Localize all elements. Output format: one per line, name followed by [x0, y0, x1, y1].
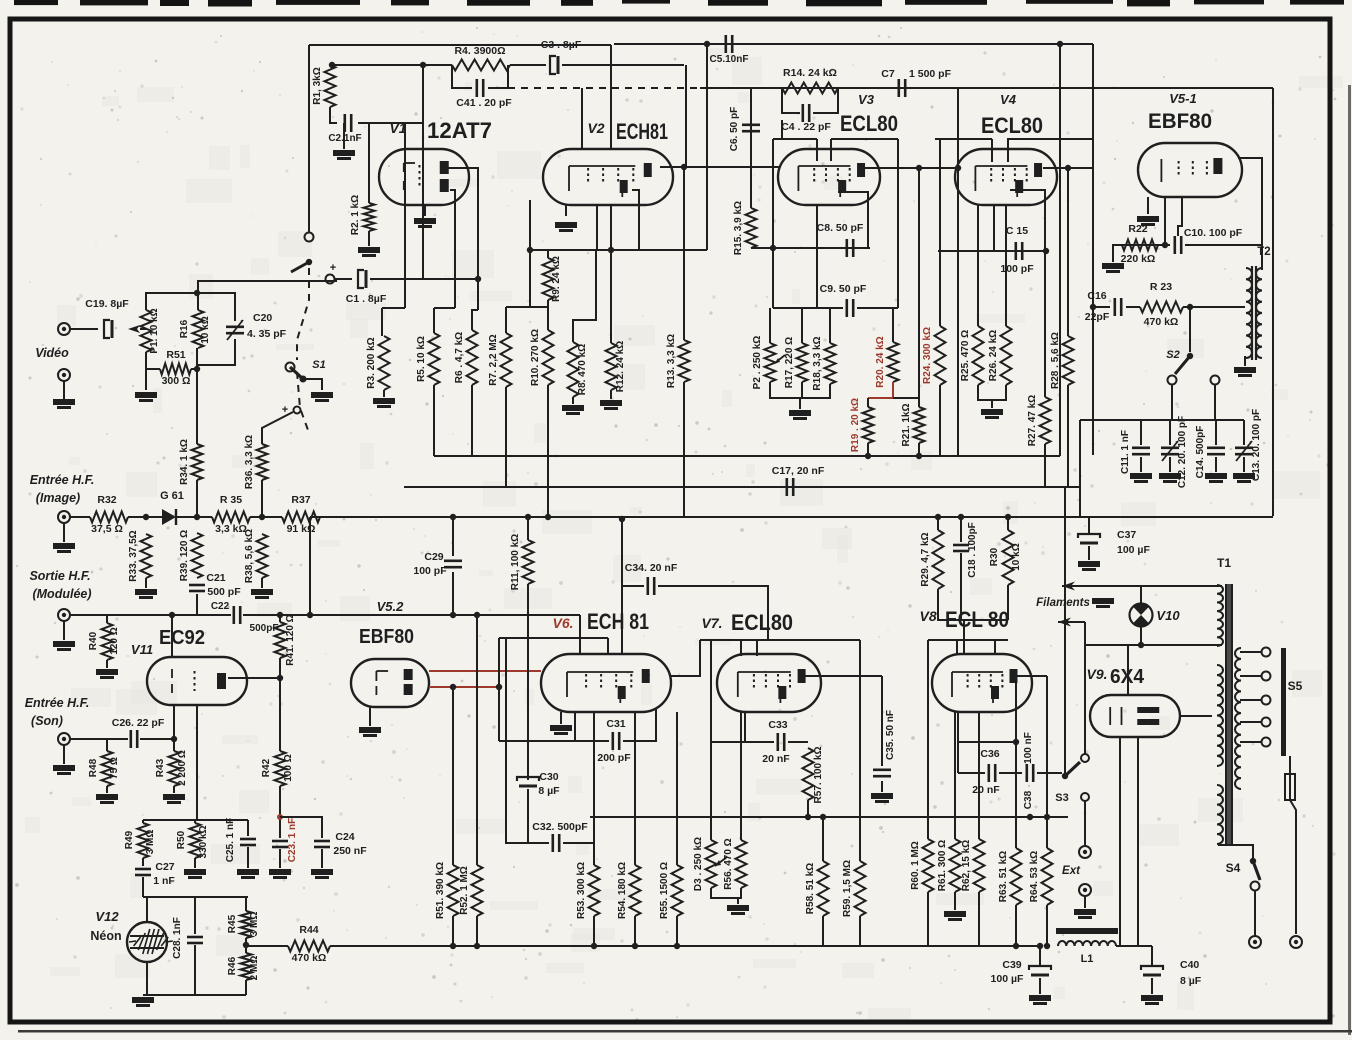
junction bus x622	[619, 516, 625, 522]
T1 tap circle 2	[1262, 696, 1271, 705]
label R51 value	[162, 375, 191, 387]
wire C28 down	[194, 945, 196, 995]
svg-text:R39. 120 Ω: R39. 120 Ω	[179, 530, 190, 581]
wire v12 top lead	[146, 897, 148, 922]
junction R64 rail	[1044, 814, 1050, 820]
wire R42 lead	[279, 683, 281, 751]
svg-text:R56. 470 Ω: R56. 470 Ω	[723, 838, 734, 889]
switch S2 contact b	[1211, 376, 1220, 385]
wire x1065 long drop	[1064, 487, 1066, 776]
wire rail A drop	[610, 45, 612, 149]
label Neon	[90, 929, 121, 943]
label C27	[155, 861, 174, 873]
label R40 value	[109, 627, 120, 654]
transformer T1 core	[1226, 584, 1232, 846]
wire R5 riser	[433, 308, 435, 333]
junction EC92 grid	[169, 612, 175, 618]
wire R27 top	[1044, 251, 1046, 397]
label V1	[389, 120, 406, 136]
svg-text:R37: R37	[291, 494, 310, 506]
wire drop x1060	[1059, 44, 1061, 456]
ground V1 cathode	[414, 218, 436, 228]
ground R8	[562, 405, 584, 415]
svg-text:C33: C33	[768, 719, 787, 731]
capacitor C25	[240, 839, 256, 845]
label R48	[88, 758, 99, 777]
T1 tap circle 4	[1262, 738, 1271, 747]
wire S1 lever	[291, 262, 309, 272]
label R44 value	[292, 952, 327, 964]
wire R50 gnd lead	[194, 858, 196, 868]
wire V2 cathode	[565, 205, 567, 216]
svg-text:R64. 53 kΩ: R64. 53 kΩ	[1029, 851, 1040, 902]
wire C26 right	[140, 738, 174, 740]
junction R53 bus	[591, 943, 597, 949]
svg-text:+: +	[330, 262, 336, 274]
wire R29C18R30 rail	[938, 619, 1008, 621]
svg-text:C29: C29	[424, 551, 443, 563]
svg-text:91 kΩ: 91 kΩ	[287, 523, 316, 535]
ground S1	[311, 392, 333, 402]
svg-text:8 µF: 8 µF	[538, 785, 560, 797]
wire top feed from P1 block	[198, 281, 337, 293]
wire V9 top in	[1127, 645, 1129, 695]
label R49 value	[145, 830, 156, 855]
wire C41 loop right	[488, 65, 508, 88]
wire V7 pin stub b	[756, 640, 758, 656]
label C2	[328, 133, 361, 144]
resistor R60c	[910, 839, 934, 892]
svg-text:R59. 1,5 MΩ: R59. 1,5 MΩ	[842, 860, 853, 917]
wire V7 anode out	[805, 675, 882, 677]
wire V11 anode out2	[228, 677, 280, 679]
svg-text:R4. 3900Ω: R4. 3900Ω	[454, 45, 505, 57]
wire V8 pin stub a	[956, 640, 958, 654]
wire R33 gnd lead	[145, 578, 147, 588]
svg-text:R51. 390 kΩ: R51. 390 kΩ	[435, 862, 446, 919]
label C23	[287, 818, 298, 862]
wire R2 gnd lead	[368, 231, 370, 246]
wire P2 riser	[769, 308, 771, 343]
terminal Ext b	[1079, 884, 1091, 896]
wire C37 lead	[1088, 516, 1090, 534]
wire y820 rail	[143, 819, 248, 821]
wire C1 left	[335, 278, 352, 280]
svg-text:C37: C37	[1117, 529, 1136, 541]
junction C18 bus	[958, 514, 964, 520]
svg-text:T1: T1	[1217, 556, 1231, 570]
switch S2 lever	[1175, 356, 1190, 374]
wire R45 lead	[245, 897, 247, 911]
label R23	[1150, 281, 1172, 293]
wire S3 from filament	[1084, 645, 1086, 754]
label R30	[989, 547, 1000, 566]
tube V5-2 EBF80	[351, 659, 429, 707]
svg-text:C6. 50 pF: C6. 50 pF	[729, 107, 740, 151]
svg-text:R57. 100 kΩ: R57. 100 kΩ	[813, 747, 824, 804]
wire C32 right	[563, 843, 594, 865]
capacitor C15	[1016, 242, 1022, 260]
wire V1 anode2 out	[450, 190, 455, 308]
label ECL80 V8	[945, 607, 1009, 632]
wire P2R17R18 rail	[770, 382, 830, 398]
svg-text:V7.: V7.	[701, 615, 722, 631]
ground V5-2	[359, 727, 381, 737]
junction C39	[1037, 943, 1043, 949]
svg-text:R27. 47 kΩ: R27. 47 kΩ	[1027, 395, 1038, 446]
wire R40 drop	[106, 615, 108, 623]
fuse	[1285, 774, 1295, 800]
wire V3 lower anode	[838, 192, 868, 248]
wire sortie gnd	[63, 621, 65, 640]
wire video to C19	[70, 328, 98, 330]
arrow filament a	[1062, 582, 1098, 591]
wire T2 left bottom	[1244, 356, 1246, 366]
wire trimmer gnd lead 2	[1215, 457, 1217, 472]
svg-text:R33. 37,5Ω: R33. 37,5Ω	[128, 530, 139, 581]
wire V4 lid A	[935, 138, 992, 140]
resistor R63	[998, 848, 1022, 905]
capacitor C4	[803, 104, 809, 122]
resistor R10	[530, 329, 554, 386]
capacitor C7	[899, 79, 905, 97]
label C20 value	[247, 328, 287, 340]
label C37	[1117, 529, 1136, 541]
svg-text:100 pF: 100 pF	[413, 565, 447, 577]
resistor R40	[102, 623, 113, 660]
svg-text:470 kΩ: 470 kΩ	[292, 952, 327, 964]
svg-text:C7: C7	[881, 68, 895, 80]
wire filament line to T1	[1098, 585, 1222, 587]
svg-text:75 Ω: 75 Ω	[109, 757, 120, 779]
capacitor C12	[1161, 441, 1179, 461]
label C31 value	[597, 752, 631, 764]
wire V10 top	[1140, 586, 1142, 604]
wire trimmer rail ext	[1080, 419, 1141, 421]
svg-text:12AT7: 12AT7	[427, 118, 492, 143]
wire R20 to R19 red	[868, 382, 893, 398]
svg-text:220 kΩ: 220 kΩ	[1121, 253, 1156, 265]
terminal bottom right a	[1249, 936, 1261, 948]
wire R36 top lead	[262, 412, 293, 444]
label C4	[781, 121, 831, 133]
switch S3 pivot	[1062, 773, 1068, 779]
label C1	[346, 293, 387, 305]
junction R57 rail	[805, 814, 811, 820]
label R2	[350, 195, 361, 235]
label C30	[539, 771, 558, 783]
wire V6 pin down c31	[574, 712, 576, 741]
wire V6 gnd lead	[560, 712, 562, 724]
junction bus R55	[674, 943, 680, 949]
resistor R8	[568, 342, 589, 397]
svg-text:V12: V12	[95, 909, 119, 924]
scan edge right	[1348, 85, 1351, 1035]
svg-text:R12. 24 kΩ: R12. 24 kΩ	[615, 341, 626, 392]
switch S1 dashed	[297, 268, 309, 430]
wire R11 down	[527, 584, 529, 780]
label C16	[1087, 290, 1106, 302]
label C21 value	[207, 586, 241, 598]
wire R58 top	[822, 817, 824, 861]
svg-text:Filaments: Filaments	[1036, 597, 1090, 609]
wire R52 bot	[476, 916, 478, 946]
junction bus R10	[545, 514, 551, 520]
svg-text:C35. 50 nF: C35. 50 nF	[885, 710, 896, 760]
label S1 plus	[282, 404, 288, 416]
junction R51 col	[194, 366, 200, 372]
svg-text:L1: L1	[1081, 953, 1094, 965]
wire filament line 2	[1085, 644, 1222, 646]
wire R59 bot	[859, 916, 861, 946]
wire C4 loop r	[813, 88, 838, 113]
wire C36 to C38	[999, 772, 1022, 774]
wire R23 to T2	[1183, 306, 1245, 308]
svg-text:V10: V10	[1156, 608, 1180, 623]
wire C31 line	[499, 740, 609, 742]
wire R43 drop	[173, 739, 175, 751]
svg-text:R 35: R 35	[220, 494, 242, 506]
wire son line	[70, 738, 128, 740]
svg-text:C18 . 100pF: C18 . 100pF	[967, 522, 978, 578]
svg-text:C20: C20	[253, 312, 272, 324]
svg-text:R18, 3,3 kΩ: R18, 3,3 kΩ	[812, 336, 823, 390]
label V5.2	[377, 599, 405, 614]
label ECL80 V7	[731, 610, 793, 635]
wire R6 down	[471, 385, 473, 456]
svg-text:200 pF: 200 pF	[597, 752, 631, 764]
potentiometer D3	[693, 837, 717, 891]
wire anode drop R63	[1015, 676, 1017, 848]
terminal entree image	[58, 511, 70, 523]
resistor R41	[275, 622, 286, 658]
wire V4 pin mid	[993, 205, 995, 251]
wire R46 down	[245, 980, 247, 995]
label C10	[1184, 227, 1243, 239]
wire rail y308	[773, 307, 843, 309]
switch S3 contact bot	[1081, 793, 1089, 801]
wire V2 pins down1	[596, 205, 598, 250]
svg-text:10 kΩ: 10 kΩ	[200, 316, 211, 343]
svg-text:C31: C31	[606, 718, 625, 730]
wire C24 gnd	[321, 849, 323, 868]
label C33 value	[762, 753, 790, 765]
tube V3 ECL80	[778, 149, 880, 205]
wire C32 left	[506, 638, 549, 843]
wire V3 anode out	[865, 167, 958, 169]
wire V8 anode out	[1016, 675, 1047, 677]
terminal video in	[58, 323, 70, 335]
label R48 value	[109, 757, 120, 779]
P2 arrow	[775, 355, 785, 363]
label R23 value	[1144, 316, 1179, 328]
tube V2 ECH81	[543, 149, 673, 205]
label C31	[606, 718, 625, 730]
wire P1 bottom rail	[146, 352, 160, 369]
label C12	[1177, 416, 1188, 488]
capacitor C11	[1132, 448, 1150, 454]
label C19	[85, 298, 129, 310]
wire V6 anode right	[671, 640, 700, 676]
svg-text:V5-1: V5-1	[1169, 91, 1196, 106]
wire entree gnd drop	[63, 523, 65, 542]
label R35 value	[215, 523, 247, 535]
wire R45 R46 join	[245, 938, 247, 953]
svg-text:S4: S4	[1226, 861, 1241, 875]
ground trimmer 1	[1159, 473, 1181, 483]
wire C30 bottom lead	[527, 789, 529, 843]
ground R2	[358, 247, 380, 257]
junction bus C29	[450, 514, 456, 520]
label S2	[1166, 349, 1179, 361]
wire trimmer gnd lead 1	[1169, 457, 1171, 472]
wire C33 right	[788, 741, 808, 743]
label R30 value	[1011, 543, 1022, 570]
resistor R51	[160, 364, 191, 375]
terminal bottom right b	[1290, 936, 1302, 948]
svg-text:R30: R30	[989, 547, 1000, 566]
wire R10 top	[547, 307, 549, 330]
wire P1 top rail	[146, 293, 235, 321]
capacitor C17	[787, 478, 793, 496]
wire entree to R32	[70, 516, 90, 518]
junction V3 anode x958	[955, 165, 961, 171]
svg-text:1 nF: 1 nF	[153, 875, 175, 887]
wire junction drop to C2 line	[422, 65, 424, 279]
wire trimmer rail drop d	[1243, 420, 1245, 445]
wire R17 riser	[801, 308, 803, 343]
wire R9 lead	[547, 250, 549, 258]
resistor R44	[288, 941, 330, 952]
svg-text:R54. 180 kΩ: R54. 180 kΩ	[617, 862, 628, 919]
resistor R17	[784, 337, 808, 388]
svg-text:C21: C21	[206, 572, 225, 584]
label Filaments	[1036, 597, 1090, 609]
ground V12	[132, 997, 154, 1007]
wire T1 tap 2	[1240, 699, 1262, 701]
capacitor C19	[104, 320, 112, 338]
wire R51 to R16 bottom	[191, 348, 197, 369]
svg-text:C23. 1 nF: C23. 1 nF	[287, 818, 298, 862]
wire R25 top lead	[977, 205, 979, 326]
wire R58 bot	[822, 916, 824, 946]
svg-text:C38: C38	[1023, 790, 1034, 809]
wire R51b bot	[452, 916, 454, 946]
wire V3 lid A	[773, 138, 817, 140]
wire C22 right	[243, 614, 580, 616]
label C21	[206, 572, 225, 584]
wire C6 branch	[750, 88, 752, 208]
wire drop x707	[706, 44, 708, 250]
wire C23 gnd	[279, 849, 281, 868]
wire S2 drop	[1189, 307, 1191, 352]
svg-text:500 pF: 500 pF	[207, 586, 241, 598]
junction sortie riser	[307, 612, 313, 618]
label C39	[1002, 959, 1021, 971]
svg-text:(Modulée): (Modulée)	[32, 587, 91, 601]
label Image	[36, 491, 80, 505]
svg-text:R50: R50	[176, 830, 187, 849]
wire V2 anode line	[660, 166, 779, 168]
wire anode drop R64	[1046, 676, 1048, 848]
svg-text:R25. 470 Ω: R25. 470 Ω	[960, 330, 971, 381]
wire y995 rail	[143, 994, 246, 996]
wire R27 bot	[1044, 444, 1046, 487]
label C14	[1195, 426, 1206, 479]
label C24	[335, 831, 354, 843]
svg-text:R3. 200 kΩ: R3. 200 kΩ	[366, 337, 377, 388]
svg-text:R2. 1 kΩ: R2. 1 kΩ	[350, 195, 361, 235]
wire C37 gnd lead	[1088, 546, 1090, 560]
wire V11 cathode down	[173, 705, 175, 739]
label R37 value	[287, 523, 316, 535]
label R14	[783, 67, 837, 79]
ground V5-1	[1137, 216, 1159, 226]
wire x530 drop	[529, 250, 531, 307]
label C25	[225, 818, 236, 862]
label R44	[299, 924, 318, 936]
tube V1 12AT7	[379, 149, 469, 205]
ground P1	[135, 392, 157, 402]
svg-text:R22: R22	[1128, 223, 1147, 235]
wire V8 grid rail	[928, 639, 1008, 641]
junction V11 anode	[277, 675, 283, 681]
junction R29 bus	[935, 514, 941, 520]
label Son	[31, 714, 63, 728]
switch S4 contact	[1251, 882, 1260, 891]
label ECH81	[616, 119, 668, 144]
terminal entree son	[58, 733, 70, 745]
svg-text:R24. 300 kΩ: R24. 300 kΩ	[922, 327, 933, 384]
ground R50	[184, 869, 206, 879]
svg-text:ECH 81: ECH 81	[587, 609, 649, 634]
svg-text:S3: S3	[1055, 792, 1068, 804]
wire C18 down	[960, 553, 962, 620]
diode G61	[162, 509, 176, 525]
transformer T1 winding mid	[1217, 665, 1223, 766]
ground sortie	[53, 641, 75, 651]
svg-text:C32. 500pF: C32. 500pF	[532, 821, 588, 833]
label V9	[1086, 666, 1107, 682]
transformer T2 left winding	[1246, 268, 1252, 358]
wire top rail C	[614, 43, 1093, 45]
junction C38 rail	[1027, 814, 1033, 820]
svg-text:4. 35 pF: 4. 35 pF	[247, 328, 287, 340]
label V6	[552, 615, 573, 631]
capacitor C14	[1207, 448, 1225, 454]
svg-text:250 nF: 250 nF	[333, 845, 367, 857]
junction V4 anode R28	[1065, 165, 1071, 171]
label C26	[112, 717, 165, 729]
wire C39 gnd lead	[1039, 978, 1041, 994]
wire S2a drop	[1171, 385, 1173, 420]
resistor R58	[805, 861, 829, 916]
resistor R11	[510, 517, 534, 590]
switch S5 bar	[1281, 648, 1286, 756]
tube V6 ECH81	[541, 654, 671, 712]
svg-text:C9. 50 pF: C9. 50 pF	[820, 283, 867, 295]
svg-text:R42: R42	[261, 758, 272, 777]
label ECH81 V6	[587, 609, 649, 634]
L1 core bar	[1056, 928, 1118, 934]
svg-text:3 MΩ: 3 MΩ	[249, 912, 260, 937]
ground R25 R26	[981, 409, 1003, 419]
svg-text:R19 . 20 kΩ: R19 . 20 kΩ	[850, 398, 861, 452]
resistor R30	[1003, 517, 1014, 585]
wire C40 gnd lead	[1151, 978, 1153, 994]
wire T1 bot to S4	[1218, 845, 1253, 858]
wire V7 pin down c33	[744, 712, 746, 742]
